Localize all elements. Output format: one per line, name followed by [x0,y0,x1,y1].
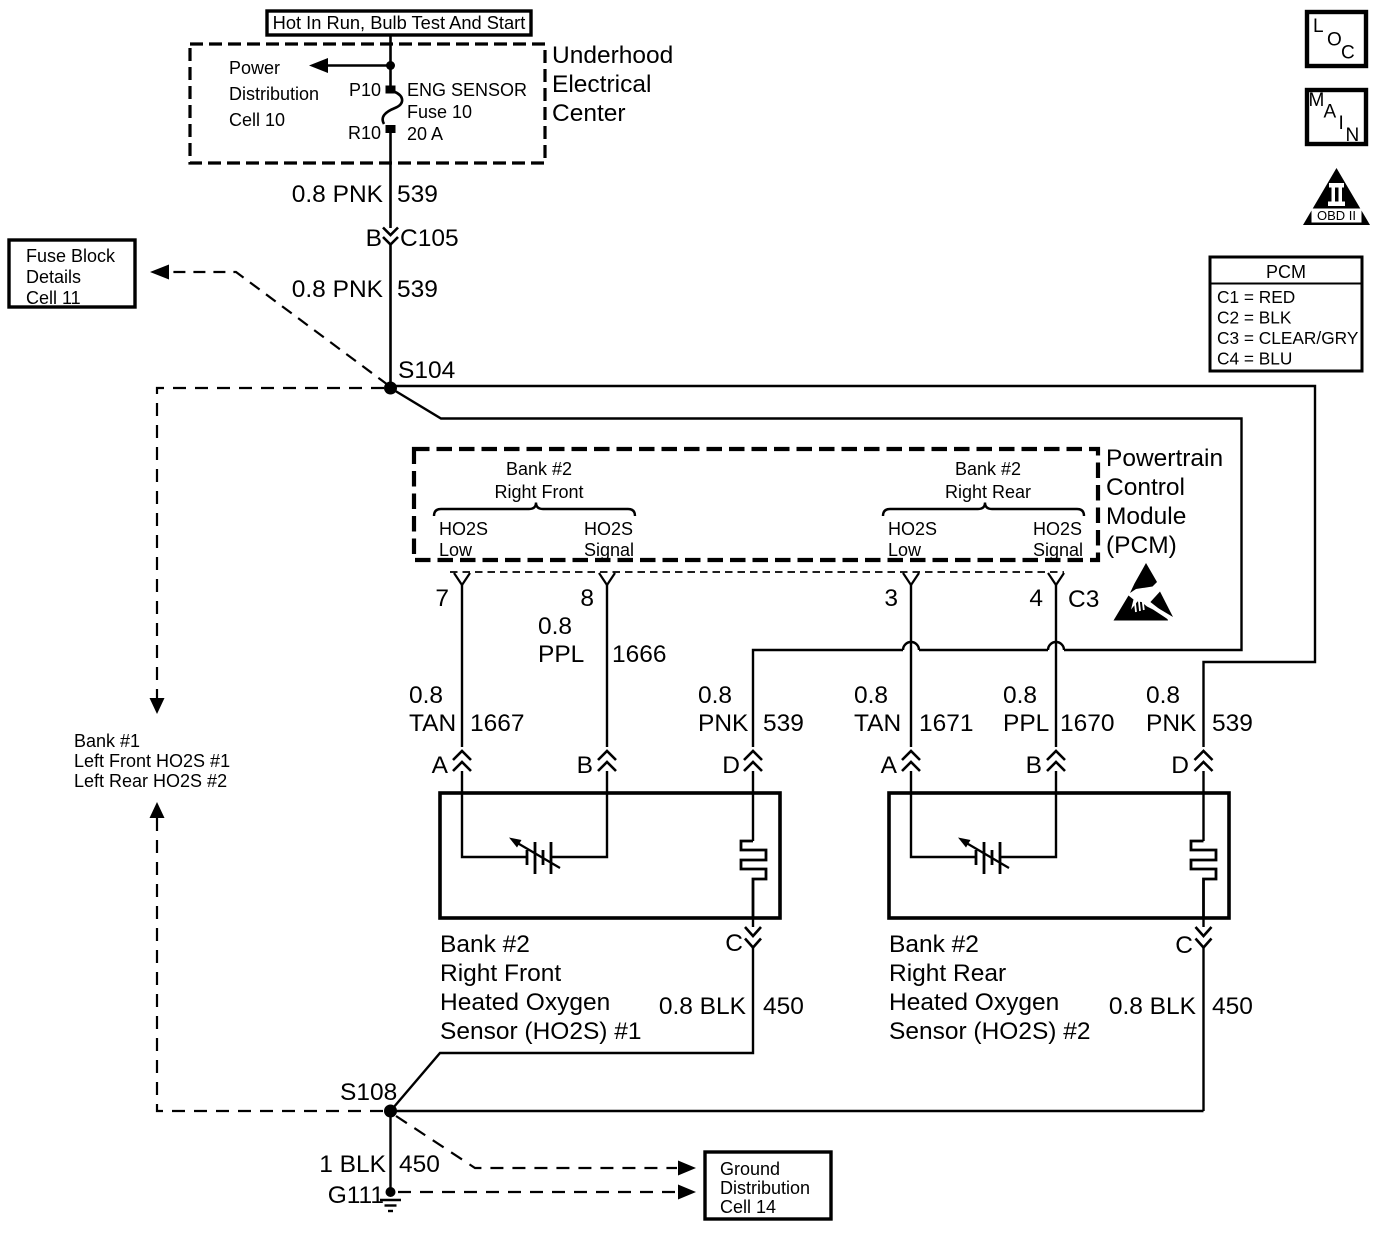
svg-text:539: 539 [397,276,438,303]
wire label 0.8 PNK 539 (above C105) [292,181,438,208]
right sensor caption [889,931,1091,1045]
svg-text:Hot In Run, Bulb Test And Star: Hot In Run, Bulb Test And Start [273,12,526,33]
svg-text:C3 = CLEAR/GRY: C3 = CLEAR/GRY [1217,328,1359,348]
svg-text:(PCM): (PCM) [1106,532,1177,559]
svg-text:539: 539 [397,181,438,208]
svg-text:Right Front: Right Front [440,960,561,987]
right heater element [1191,841,1216,918]
svg-text:Distribution: Distribution [229,84,319,104]
svg-text:7: 7 [435,585,449,612]
svg-text:0.8: 0.8 [1146,682,1180,709]
wire C105 to splice S104 [389,245,392,389]
svg-text:Low: Low [439,540,473,560]
svg-text:G111: G111 [328,1182,384,1209]
svg-text:D: D [1171,752,1189,779]
powertrain control module label [1106,445,1223,559]
wire right C down to ground run (0.8 BLK 450) [1202,948,1204,1112]
PCM pin 4 terminal [1048,573,1064,585]
svg-text:HO2S: HO2S [1033,519,1082,539]
svg-text:Electrical: Electrical [552,71,651,98]
svg-text:539: 539 [1212,710,1253,737]
wire B into sensing element [551,771,607,857]
wire D into right heater [1202,771,1204,841]
brace right [883,503,1084,517]
junction at fuse feed [386,61,395,70]
svg-text:C1 = RED: C1 = RED [1217,287,1295,307]
PCM dashed outline [414,449,1098,560]
label 0.8 TAN 1671 [854,682,974,737]
svg-text:Heated Oxygen: Heated Oxygen [889,989,1059,1016]
svg-text:1667: 1667 [470,710,525,737]
MAIN icon box [1307,90,1366,146]
svg-text:ENG SENSOR: ENG SENSOR [407,80,527,100]
svg-text:Cell 11: Cell 11 [26,288,81,308]
svg-text:A: A [881,752,898,779]
label 0.8 PPL 1666 [538,613,667,668]
wire S104 to left HO2S heater feed (0.8 PNK 539) with hops [391,388,1242,747]
left sensor connector pin B [577,751,616,779]
label 0.8 PNK 539 (right heater feed) [1146,682,1253,737]
wire B into right sensing element [1000,771,1056,857]
wire A into right sensing element [911,771,975,857]
svg-text:A: A [432,752,449,779]
svg-text:B: B [1026,752,1042,779]
svg-text:S104: S104 [398,357,455,384]
svg-text:PCM: PCM [1266,262,1306,282]
svg-text:Bank #1: Bank #1 [74,731,140,751]
left sensing element (variable cell) [509,838,560,875]
svg-text:S108: S108 [340,1079,397,1106]
svg-text:0.8 PNK: 0.8 PNK [292,276,384,303]
svg-text:450: 450 [399,1151,440,1178]
right sensor connector pin C [1175,918,1211,959]
ground distribution box [705,1152,831,1219]
svg-text:Sensor (HO2S) #1: Sensor (HO2S) #1 [440,1018,642,1045]
svg-text:N: N [1346,125,1360,146]
svg-text:B: B [577,752,593,779]
svg-text:Right Rear: Right Rear [889,960,1006,987]
PCM pin function label bank2 right front [494,459,583,502]
fuse block details box [9,240,135,308]
svg-text:P10: P10 [349,80,381,100]
HO2S signal label right [1033,519,1083,560]
svg-text:0.8 BLK: 0.8 BLK [659,993,747,1020]
svg-text:C: C [725,930,743,957]
svg-text:1670: 1670 [1060,710,1115,737]
left HO2S sensor box [440,793,780,918]
wire to power distribution (arrow) [309,58,391,73]
svg-text:Ground: Ground [720,1159,780,1179]
wire S108 to right sensor ground run [391,1110,1204,1112]
svg-text:Heated Oxygen: Heated Oxygen [440,989,610,1016]
svg-text:HO2S: HO2S [584,519,633,539]
left sensor connector pin C [725,918,761,957]
OBD II icon [1303,168,1370,225]
left heater element [741,841,766,918]
left sensor connector pin D [722,751,762,779]
svg-text:1666: 1666 [612,641,667,668]
svg-text:450: 450 [1212,993,1253,1020]
left sensor connector pin A [432,751,471,779]
ground G111 junction [386,1187,396,1197]
svg-text:0.8: 0.8 [1003,682,1037,709]
svg-text:C: C [1341,43,1355,64]
wire pin4 to right sensor B (0.8 PPL 1670) [1055,585,1057,747]
svg-text:0.8: 0.8 [854,682,888,709]
wire label 0.8 PNK 539 (below C105) [292,276,438,303]
svg-text:0.8: 0.8 [698,682,732,709]
svg-text:Signal: Signal [584,540,634,560]
ground symbol [380,1200,401,1211]
svg-text:Bank #2: Bank #2 [506,459,572,479]
underhood electrical center dashed box [190,44,545,163]
brace left [434,503,635,517]
label 0.8 PPL 1670 [1003,682,1115,737]
svg-text:0.8 PNK: 0.8 PNK [292,181,384,208]
wire left C to S108 (0.8 BLK 450) [391,948,754,1112]
label 0.8 BLK 450 right [1109,993,1253,1020]
svg-text:Power: Power [229,58,280,78]
left sensor caption [440,931,642,1045]
dashed pointer S108 to ground distribution [396,1116,696,1176]
svg-text:Underhood: Underhood [552,42,673,69]
svg-text:Left Front HO2S #1: Left Front HO2S #1 [74,751,230,771]
svg-text:Cell 14: Cell 14 [720,1197,776,1217]
dashed branch line (left) lower [150,802,384,1111]
svg-text:OBD II: OBD II [1317,208,1356,223]
svg-text:C4 = BLU: C4 = BLU [1217,349,1292,369]
svg-text:TAN: TAN [854,710,901,737]
right sensing element (variable cell) [958,838,1009,875]
svg-text:Distribution: Distribution [720,1178,810,1198]
right sensor connector pin B [1026,751,1065,779]
label 0.8 BLK 450 left [659,993,804,1020]
svg-text:C3: C3 [1068,586,1099,613]
HO2S low label right [888,519,937,560]
svg-text:I: I [1339,113,1344,134]
svg-text:D: D [722,752,740,779]
svg-text:Center: Center [552,100,626,127]
connector C3 line (thin dashed) [450,571,1064,573]
dashed pointer from S104 to fuse block details [150,265,388,386]
splice S104 junction [384,382,397,395]
svg-text:0.8: 0.8 [538,613,572,640]
HO2S low label left [439,519,488,560]
dashed branch line (left, to bank1 sensors) upper [150,388,385,714]
wire A into sensing element [462,771,526,857]
svg-text:PNK: PNK [1146,710,1197,737]
svg-text:Powertrain: Powertrain [1106,445,1223,472]
right sensor connector pin A [881,751,920,779]
right HO2S sensor box [889,793,1229,918]
svg-text:C105: C105 [400,225,459,252]
svg-text:C: C [1175,932,1193,959]
svg-text:R10: R10 [348,123,381,143]
svg-text:B: B [366,225,382,252]
PCM connector color table [1210,257,1362,371]
right sensor connector pin D [1171,751,1212,779]
wire S104 to right HO2S heater feed (0.8 PNK 539) [391,386,1316,747]
svg-text:Control: Control [1106,474,1185,501]
label 1 BLK 450 [319,1151,440,1178]
svg-text:Bank #2: Bank #2 [440,931,530,958]
svg-text:PNK: PNK [698,710,749,737]
fuse ENG SENSOR Fuse 10 [383,86,403,134]
wire pin3 to right sensor A (0.8 TAN 1671) [910,585,912,747]
PCM pin 8 terminal [599,573,615,585]
HO2S signal label left [584,519,634,560]
svg-text:A: A [1324,102,1337,123]
svg-text:PPL: PPL [1003,710,1049,737]
svg-text:HO2S: HO2S [888,519,937,539]
label 0.8 PNK 539 (left heater feed) [698,682,804,737]
svg-text:Module: Module [1106,503,1186,530]
svg-text:20 A: 20 A [407,124,443,144]
svg-text:Right Rear: Right Rear [945,482,1031,502]
svg-text:Sensor (HO2S) #2: Sensor (HO2S) #2 [889,1018,1091,1045]
wire pin7 to left sensor A (0.8 TAN 1667) [461,585,463,747]
connector C105 pin B [366,225,459,252]
svg-text:PPL: PPL [538,641,584,668]
svg-text:Bank #2: Bank #2 [955,459,1021,479]
svg-text:Right Front: Right Front [494,482,583,502]
svg-text:M: M [1309,90,1325,111]
wire pin8 to left sensor B (0.8 PPL 1666) [606,585,608,747]
wire fuse R10 to connector C105 [389,133,392,228]
svg-text:HO2S: HO2S [439,519,488,539]
splice S108 junction [384,1105,397,1118]
svg-text:Signal: Signal [1033,540,1083,560]
LOC icon box [1307,12,1366,66]
svg-text:Left Rear HO2S #2: Left Rear HO2S #2 [74,771,227,791]
svg-text:TAN: TAN [409,710,456,737]
PCM pin 7 terminal [454,573,470,585]
power distribution label [229,58,319,130]
PCM pin 3 terminal [903,573,919,585]
svg-text:C2 = BLK: C2 = BLK [1217,308,1292,328]
svg-text:0.8: 0.8 [409,682,443,709]
ESD sensitive device symbol [1114,563,1174,621]
svg-text:1 BLK: 1 BLK [319,1151,386,1178]
svg-text:L: L [1313,16,1324,37]
svg-text:0.8 BLK: 0.8 BLK [1109,993,1197,1020]
bank1 note label [74,731,230,791]
svg-text:O: O [1327,30,1342,51]
svg-text:450: 450 [763,993,804,1020]
wire S108 to G111 (1 BLK 450) [389,1111,391,1192]
svg-text:1671: 1671 [919,710,974,737]
wire from hot-in-run box to fuse P10 [389,35,392,86]
PCM pin function label bank2 right rear [945,459,1031,502]
label 0.8 TAN 1667 [409,682,525,737]
underhood electrical center label [552,42,673,127]
wire D into heater [752,771,754,841]
svg-text:4: 4 [1029,585,1043,612]
dashed pointer G111 to ground distribution [398,1185,696,1200]
svg-text:Bank #2: Bank #2 [889,931,979,958]
svg-text:3: 3 [884,585,898,612]
svg-text:8: 8 [580,585,594,612]
svg-text:Cell 10: Cell 10 [229,110,285,130]
svg-text:Details: Details [26,267,81,287]
svg-text:Fuse Block: Fuse Block [26,246,116,266]
svg-text:539: 539 [763,710,804,737]
svg-text:Fuse 10: Fuse 10 [407,102,472,122]
hot in run feed label box [267,11,531,35]
fuse value label [407,80,527,144]
svg-text:Low: Low [888,540,922,560]
